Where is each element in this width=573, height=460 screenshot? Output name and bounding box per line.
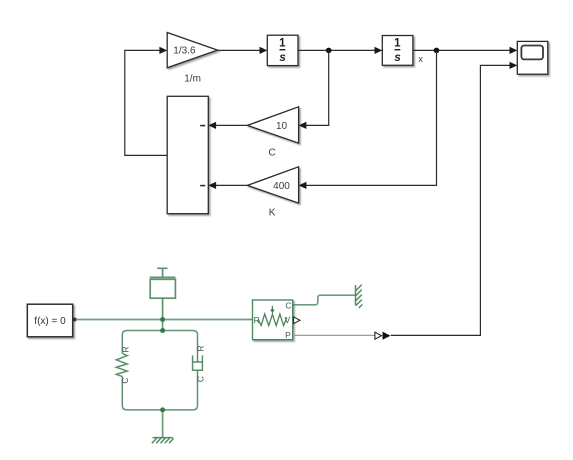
svg-text:C: C	[196, 376, 206, 382]
svg-text:R: R	[254, 315, 260, 325]
wire branch to gain C	[306, 50, 329, 125]
svg-text:10: 10	[276, 121, 288, 132]
arrowhead into integrator 1	[260, 47, 268, 54]
wire integrator 1 to integrator 2	[298, 49, 375, 51]
wire scope input 2 from PS output	[391, 65, 510, 335]
svg-text:s: s	[394, 52, 400, 64]
minus sign input 1	[200, 125, 205, 127]
svg-text:V: V	[284, 315, 290, 325]
gain 1/m (1/3.6)	[167, 33, 217, 68]
arrowhead into gain K	[299, 182, 307, 189]
svg-text:R: R	[120, 346, 130, 352]
wire integrator 2 to scope input 1	[413, 49, 510, 51]
junction node on main wire	[160, 317, 165, 322]
translational spring (left branch)	[116, 335, 127, 405]
wire gain 1/m to integrator 1	[218, 49, 261, 51]
arrowhead into gain 1/m	[159, 47, 167, 54]
junction node at loop bottom	[160, 407, 165, 412]
wall (mechanical reference, hatched)	[356, 285, 363, 308]
solver block f(x)=0	[27, 304, 72, 337]
scope screen	[521, 46, 543, 60]
svg-text:C: C	[120, 377, 130, 383]
wire gain K to sum	[216, 184, 248, 186]
svg-text:1/3.6: 1/3.6	[173, 46, 196, 57]
spring-damper loop top and bottom rails	[122, 331, 197, 410]
arrowhead into sum input 2	[208, 182, 216, 189]
svg-text:s: s	[279, 52, 285, 64]
integrator 1 (1/s)	[267, 35, 298, 65]
wire sensor C to wall	[293, 295, 356, 305]
wire gain C to sum	[216, 124, 248, 126]
svg-text:R: R	[196, 345, 206, 351]
junction node after integrator 1	[326, 48, 332, 54]
svg-text:K: K	[269, 208, 276, 219]
arrowhead into integrator 2	[375, 47, 383, 54]
minus sign input 2	[200, 185, 205, 187]
motion sensor block	[253, 300, 293, 340]
svg-text:C: C	[268, 148, 275, 159]
svg-text:1: 1	[394, 38, 401, 50]
scope block	[517, 41, 548, 74]
arrowhead into sum input 1	[208, 122, 216, 129]
V port hollow triangle	[294, 317, 300, 324]
solver port nub	[73, 318, 77, 322]
svg-text:1/m: 1/m	[184, 73, 201, 84]
sensor spring icon	[258, 306, 287, 326]
junction node after integrator 2	[434, 48, 440, 54]
gain K (400), flipped left	[247, 167, 298, 203]
physical signal wire from P port	[293, 334, 375, 336]
junction node at loop top	[160, 328, 165, 333]
filled arrowhead at PS/signal junction	[383, 332, 391, 340]
main physical wire	[76, 319, 252, 321]
mechanical reference ground	[152, 438, 174, 444]
svg-text:x: x	[418, 54, 423, 64]
stem from loop bottom to mechanical reference	[162, 410, 164, 438]
wire branch to gain K	[306, 50, 437, 185]
gain C (10), flipped left	[247, 107, 298, 143]
svg-text:C: C	[285, 300, 291, 310]
translational damper (right branch)	[193, 335, 203, 405]
hollow PS arrowhead	[375, 332, 382, 339]
arrowhead into gain C	[299, 122, 307, 129]
mass block icon	[150, 268, 176, 319]
svg-text:1: 1	[279, 38, 286, 50]
svg-text:400: 400	[273, 181, 290, 192]
integrator 2 (1/s)	[382, 36, 413, 66]
svg-text:f(x) = 0: f(x) = 0	[34, 316, 66, 327]
arrowhead into scope input 1	[510, 47, 518, 54]
stem from main wire to spring-damper loop	[162, 320, 164, 331]
svg-text:P: P	[285, 330, 291, 340]
sum block (flipped)	[167, 96, 208, 213]
wire feedback from sum output to gain 1/m input	[125, 50, 167, 155]
arrowhead into scope input 2	[510, 62, 518, 69]
sensor arrow tip	[270, 309, 274, 313]
